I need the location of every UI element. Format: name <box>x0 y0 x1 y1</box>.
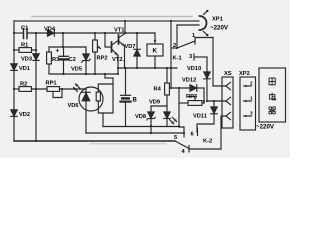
potentiometer RP2 <box>93 33 108 74</box>
svg-text:VD4: VD4 <box>44 27 56 33</box>
wire VT2 base feed <box>105 33 112 47</box>
diode VD3 <box>21 54 39 63</box>
scan ghost streak <box>32 17 192 144</box>
svg-text:R1: R1 <box>21 43 28 49</box>
diode VD4 <box>44 27 56 37</box>
appliance box <box>256 68 286 131</box>
svg-text:5: 5 <box>174 135 177 141</box>
svg-text:2: 2 <box>250 81 253 87</box>
svg-text:VD9: VD9 <box>149 100 160 106</box>
svg-text:VT2.: VT2. <box>112 57 124 63</box>
potentiometer RP3 <box>179 88 204 127</box>
buzzer B <box>121 95 138 126</box>
wire VD8 VD9 bottom <box>103 127 184 134</box>
svg-text:XP1: XP1 <box>212 17 223 23</box>
wire VT1 emitter to B <box>125 46 126 95</box>
svg-text:VD3: VD3 <box>21 57 32 63</box>
svg-text:VT1: VT1 <box>114 28 124 34</box>
svg-text:C1: C1 <box>21 26 28 32</box>
svg-text:~220V: ~220V <box>210 25 229 32</box>
diode VD10 <box>187 57 210 101</box>
svg-text:RP1: RP1 <box>46 81 57 87</box>
svg-text:3: 3 <box>189 54 192 60</box>
zener VD5 <box>71 47 90 74</box>
svg-text:RP2: RP2 <box>97 56 108 62</box>
plug XP2 <box>239 71 256 130</box>
svg-text:R2: R2 <box>20 82 27 88</box>
svg-text:K: K <box>153 48 158 55</box>
svg-text:XP2: XP2 <box>239 71 250 77</box>
svg-text:B: B <box>133 98 138 104</box>
diode VD7 <box>125 33 141 68</box>
svg-text:3: 3 <box>250 111 253 117</box>
resistor R2 <box>14 82 47 92</box>
wire y33 row <box>14 32 125 34</box>
diode VD1 <box>11 64 30 72</box>
svg-text:1: 1 <box>192 33 195 39</box>
capacitor C2 <box>56 47 76 74</box>
svg-text:1: 1 <box>250 96 253 102</box>
wire XS contact2 feed <box>204 101 226 103</box>
wire VD8 VD9 top <box>151 106 167 112</box>
svg-text:C2: C2 <box>69 57 76 63</box>
wire XS contact1 feed <box>213 38 226 87</box>
resistor R4 <box>154 68 170 106</box>
relay contact K-2 <box>174 128 221 155</box>
diode VD12 <box>171 78 204 92</box>
wire y33 relay feed <box>125 32 155 34</box>
svg-text:~220V: ~220V <box>256 124 275 131</box>
optocoupler VD6 <box>68 84 114 133</box>
svg-text:VD1: VD1 <box>19 66 30 72</box>
wire left vertical bus <box>13 21 15 141</box>
transistor VT2 <box>112 41 125 75</box>
wire relay return y68 <box>118 67 177 69</box>
plug XP1 <box>177 10 229 37</box>
wire XS contact3 feed <box>221 116 226 149</box>
svg-text:VD5: VD5 <box>71 67 82 73</box>
svg-text:VD2: VD2 <box>19 112 30 118</box>
resistor R3 <box>47 47 60 74</box>
svg-text:R4: R4 <box>154 87 162 93</box>
wire top rail <box>14 20 199 22</box>
relay contact K-1 <box>173 33 214 62</box>
wire y78 opto feed <box>105 74 113 84</box>
svg-text:R3: R3 <box>52 57 59 63</box>
svg-text:K-1: K-1 <box>173 56 182 62</box>
socket XS <box>222 71 233 128</box>
svg-text:VD6: VD6 <box>68 103 79 109</box>
svg-text:VD7: VD7 <box>125 44 136 50</box>
svg-text:+: + <box>56 48 60 55</box>
svg-text:XS: XS <box>224 71 232 77</box>
wire y74 row <box>49 73 118 75</box>
wire y47 row <box>49 33 86 47</box>
wire x36 vertical <box>35 33 37 141</box>
svg-text:2: 2 <box>173 43 176 49</box>
potentiometer RP1 <box>46 81 87 98</box>
zener VD8 <box>135 112 155 126</box>
svg-text:6: 6 <box>191 132 194 138</box>
relay coil K <box>147 33 163 68</box>
svg-text:VD11: VD11 <box>193 114 207 120</box>
diode VD2 <box>11 110 30 118</box>
svg-text:RP3: RP3 <box>186 94 197 100</box>
wire bottom rail <box>14 140 175 142</box>
LED VD9 <box>149 100 177 127</box>
svg-text:VD8: VD8 <box>135 114 146 120</box>
diode VD11 <box>193 101 217 132</box>
wire right vertical x177 <box>171 21 177 88</box>
capacitor C1 <box>21 26 28 39</box>
transistor VT1 <box>114 21 125 46</box>
svg-text:VD12: VD12 <box>182 78 196 84</box>
resistor R1 <box>14 43 36 53</box>
svg-text:K-2: K-2 <box>203 139 212 145</box>
svg-text:VD10: VD10 <box>187 66 201 72</box>
wire junction dots middle <box>62 67 172 75</box>
wire rail2 <box>86 132 184 134</box>
